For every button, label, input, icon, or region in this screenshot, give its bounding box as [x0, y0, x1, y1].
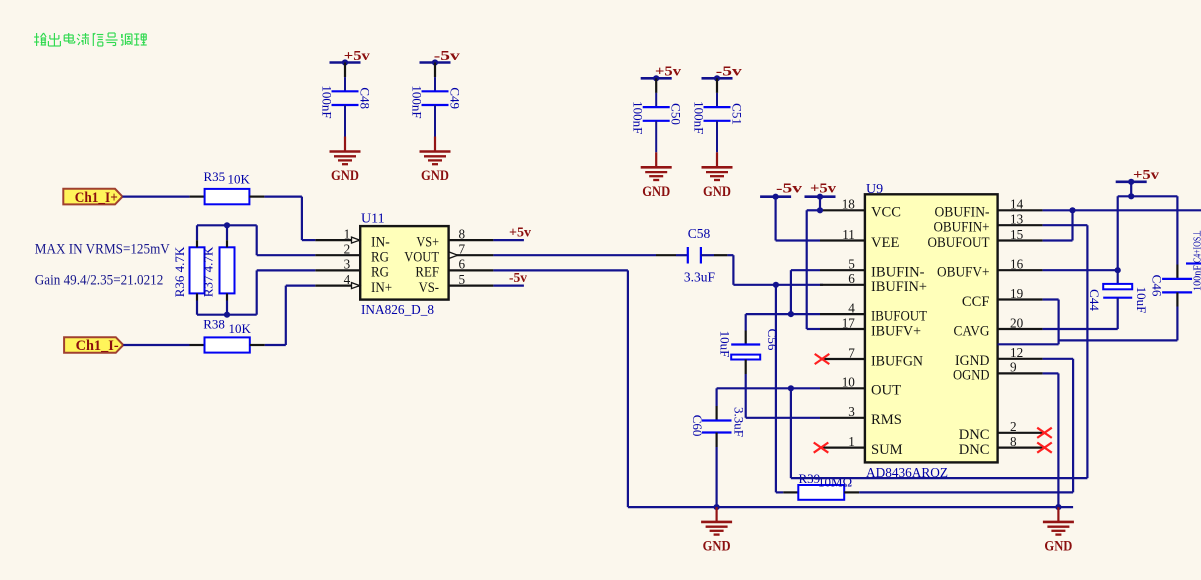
svg-text:OBUFIN-: OBUFIN- [935, 205, 990, 221]
svg-text:+5v: +5v [344, 49, 370, 64]
svg-text:RG: RG [371, 265, 389, 281]
svg-text:5: 5 [459, 272, 466, 287]
svg-text:R35: R35 [204, 169, 226, 184]
svg-text:VS-: VS- [419, 280, 440, 296]
svg-text:IN-: IN- [371, 234, 390, 250]
svg-text:MAX IN VRMS=125mV: MAX IN VRMS=125mV [35, 241, 170, 257]
svg-text:U11: U11 [361, 212, 385, 227]
svg-text:OBUFV+: OBUFV+ [937, 265, 990, 281]
svg-text:100nF: 100nF [1193, 265, 1201, 291]
svg-text:IBUFOUT: IBUFOUT [871, 308, 927, 324]
svg-text:IN+: IN+ [371, 280, 392, 296]
svg-text:18: 18 [842, 197, 856, 212]
svg-text:OBUFIN+: OBUFIN+ [934, 220, 990, 236]
svg-text:100nF: 100nF [692, 101, 707, 134]
svg-text:IGND: IGND [955, 353, 990, 369]
svg-text:8: 8 [459, 226, 466, 241]
svg-text:IBUFV+: IBUFV+ [871, 323, 921, 339]
svg-text:+5v: +5v [509, 226, 531, 241]
svg-text:100nF: 100nF [320, 85, 335, 118]
svg-text:C49: C49 [448, 87, 463, 109]
svg-text:C58: C58 [688, 226, 711, 241]
svg-text:VCC: VCC [871, 205, 901, 221]
svg-text:11: 11 [842, 227, 855, 242]
svg-text:CAVG: CAVG [954, 323, 990, 339]
svg-text:R36 4.7K: R36 4.7K [172, 246, 187, 297]
svg-text:+5v: +5v [655, 65, 681, 80]
svg-text:10: 10 [842, 375, 856, 390]
svg-text:+5v: +5v [810, 182, 836, 197]
svg-text:16: 16 [1010, 257, 1024, 272]
svg-text:-5v: -5v [434, 49, 460, 64]
svg-text:DNC: DNC [959, 427, 990, 443]
svg-text:19: 19 [1010, 286, 1024, 301]
svg-text:6: 6 [848, 271, 855, 286]
svg-text:IBUFIN+: IBUFIN+ [871, 279, 927, 295]
svg-text:R37 4.7K: R37 4.7K [201, 246, 216, 297]
svg-text:10K: 10K [229, 321, 252, 336]
svg-text:C50: C50 [669, 103, 684, 125]
svg-text:3.3uF: 3.3uF [684, 270, 716, 285]
svg-text:Ch1_I-: Ch1_I- [76, 338, 119, 354]
svg-text:12: 12 [1010, 345, 1023, 360]
svg-text:1: 1 [848, 434, 855, 449]
svg-text:+5v: +5v [1133, 168, 1159, 183]
svg-text:100nF: 100nF [631, 101, 646, 134]
svg-text:VS+: VS+ [416, 234, 439, 250]
svg-text:C44: C44 [1087, 289, 1102, 311]
svg-text:REF: REF [415, 265, 439, 281]
svg-text:20: 20 [1010, 315, 1024, 330]
svg-text:10K: 10K [228, 172, 251, 187]
svg-text:-5v: -5v [716, 65, 742, 80]
svg-text:GND: GND [642, 184, 670, 200]
svg-text:9: 9 [1010, 360, 1017, 375]
svg-text:17: 17 [842, 315, 856, 330]
svg-text:GND: GND [421, 168, 449, 184]
svg-text:RG: RG [371, 250, 389, 266]
svg-text:15: 15 [1010, 227, 1024, 242]
svg-text:GND: GND [331, 168, 359, 184]
svg-text:14: 14 [1010, 197, 1024, 212]
svg-text:Gain 49.4/2.35=21.0212: Gain 49.4/2.35=21.0212 [35, 273, 164, 289]
svg-text:-5v: -5v [776, 182, 802, 197]
svg-text:VEE: VEE [871, 235, 899, 251]
svg-text:GND: GND [703, 539, 731, 555]
svg-text:5: 5 [848, 257, 855, 272]
svg-text:10MΩ: 10MΩ [818, 475, 852, 490]
svg-text:GND: GND [1044, 539, 1072, 555]
svg-text:C56: C56 [765, 329, 780, 351]
svg-text:13: 13 [1010, 212, 1024, 227]
svg-text:DNC: DNC [959, 442, 990, 458]
svg-text:6: 6 [459, 257, 466, 272]
svg-text:100nF: 100nF [410, 85, 425, 118]
svg-text:C60: C60 [690, 415, 705, 437]
svg-text:GND: GND [703, 184, 731, 200]
svg-text:C48: C48 [358, 87, 373, 109]
svg-text:10uF: 10uF [1134, 287, 1149, 314]
svg-text:4: 4 [848, 300, 855, 315]
svg-text:3: 3 [344, 257, 351, 272]
svg-text:3: 3 [848, 404, 855, 419]
svg-text:VOUT: VOUT [404, 250, 439, 266]
svg-text:7: 7 [848, 345, 855, 360]
svg-text:R38: R38 [203, 316, 225, 331]
svg-text:7: 7 [459, 242, 466, 257]
svg-text:C51: C51 [730, 103, 745, 125]
svg-text:IBUFIN-: IBUFIN- [871, 265, 925, 281]
svg-text:OBUFOUT: OBUFOUT [928, 235, 990, 251]
svg-text:SUM: SUM [871, 442, 903, 458]
svg-text:U9: U9 [866, 182, 883, 197]
svg-text:C4+IOS⊥: C4+IOS⊥ [1193, 230, 1201, 263]
svg-text:CCF: CCF [962, 294, 990, 310]
svg-text:Ch1_I+: Ch1_I+ [75, 190, 118, 206]
svg-text:OGND: OGND [953, 368, 990, 384]
svg-text:8: 8 [1010, 434, 1017, 449]
svg-text:OUT: OUT [871, 383, 901, 399]
svg-text:2: 2 [1010, 419, 1017, 434]
svg-text:4: 4 [344, 272, 351, 287]
svg-text:10uF: 10uF [718, 331, 733, 358]
svg-text:INA826_D_8: INA826_D_8 [361, 302, 434, 317]
svg-text:-5v: -5v [509, 271, 527, 286]
svg-text:RMS: RMS [871, 412, 902, 428]
svg-text:C46: C46 [1150, 275, 1165, 297]
svg-text:IBUFGN: IBUFGN [871, 353, 923, 369]
svg-text:1: 1 [344, 226, 351, 241]
svg-text:3.3uF: 3.3uF [732, 407, 747, 437]
svg-text:2: 2 [344, 242, 351, 257]
